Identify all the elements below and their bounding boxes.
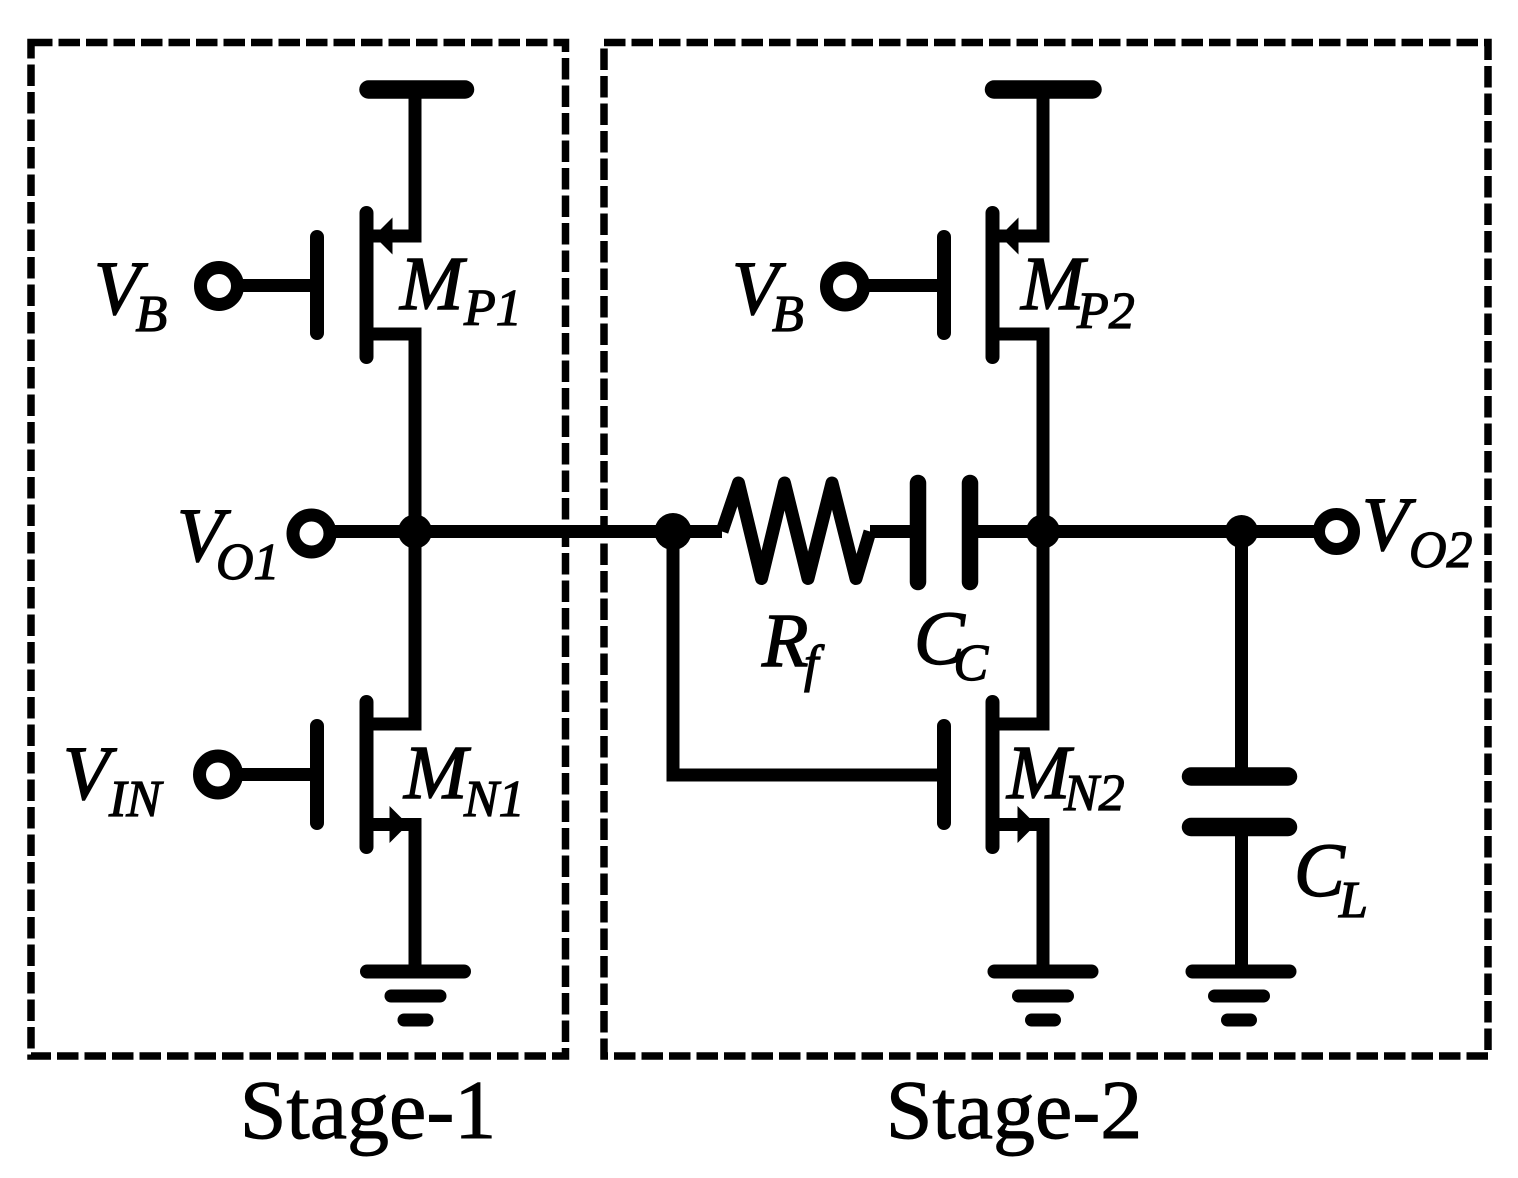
wire Rf to CC xyxy=(870,525,912,538)
svg-text:M: M xyxy=(403,731,471,815)
wire CC to node VO2int xyxy=(976,525,1043,538)
capacitor CL xyxy=(1191,777,1288,828)
svg-text:Stage-1: Stage-1 xyxy=(240,1064,497,1157)
transistor MP1 xyxy=(317,95,415,538)
label CC xyxy=(914,597,990,692)
wire VO1 to node A xyxy=(334,525,722,538)
Stage-1 dashed box xyxy=(31,43,566,1057)
wire VO2int to VO2 terminal xyxy=(1043,525,1315,538)
svg-text:L: L xyxy=(1338,872,1368,929)
terminal VB (stage 2) xyxy=(827,268,864,305)
ground (CL) xyxy=(1193,972,1290,1021)
node VO2 internal junction xyxy=(1026,515,1060,549)
label MP2 xyxy=(1020,242,1135,340)
svg-text:Stage-2: Stage-2 xyxy=(886,1064,1143,1157)
svg-text:P1: P1 xyxy=(463,280,522,337)
label MN1 xyxy=(403,731,525,828)
svg-text:C: C xyxy=(954,635,990,692)
svg-text:M: M xyxy=(399,242,467,326)
label MN2 xyxy=(1006,731,1125,822)
terminal VB (stage 1) xyxy=(201,268,238,305)
VDD rail bar (MP2 source) xyxy=(994,80,1093,99)
wire VB to MP1 gate xyxy=(240,279,313,292)
label Rf xyxy=(761,599,825,693)
node A junction (feedback tap) xyxy=(655,513,692,550)
wire VO2int down to CL xyxy=(1235,532,1248,768)
label VIN xyxy=(63,732,164,828)
svg-text:N1: N1 xyxy=(463,771,525,828)
terminal VO1 xyxy=(293,515,330,552)
Stage-2 dashed box xyxy=(604,43,1488,1057)
svg-text:B: B xyxy=(772,286,804,343)
transistor MP2 xyxy=(944,95,1043,538)
wire VIN to MN1 gate xyxy=(240,768,313,781)
wire node A to MN2 gate xyxy=(673,525,940,775)
capacitor CC xyxy=(918,483,970,582)
wire CL to ground xyxy=(1235,836,1248,972)
label VB (stage 1) xyxy=(94,247,167,343)
ground (stage 2) xyxy=(995,972,1092,1021)
svg-text:O2: O2 xyxy=(1409,522,1473,579)
node VO1 junction xyxy=(398,515,432,549)
VDD rail bar (MP1 source) xyxy=(369,80,466,99)
svg-text:IN: IN xyxy=(108,771,164,828)
terminal VO2 xyxy=(1319,514,1354,549)
svg-text:f: f xyxy=(804,636,825,693)
svg-text:R: R xyxy=(761,599,808,683)
label VO1 xyxy=(177,494,280,591)
svg-text:N2: N2 xyxy=(1063,765,1125,822)
resistor Rf xyxy=(722,483,870,579)
svg-text:B: B xyxy=(136,286,168,343)
ground (stage 1) xyxy=(367,972,464,1021)
label CL xyxy=(1294,829,1368,929)
svg-text:P2: P2 xyxy=(1076,283,1135,340)
label VB (stage 2) xyxy=(732,247,804,343)
node CL junction xyxy=(1225,515,1258,548)
label MP1 xyxy=(399,242,522,337)
transistor MN2 xyxy=(944,525,1043,972)
terminal VIN xyxy=(200,756,237,793)
transistor MN1 xyxy=(317,525,415,972)
wire VB to MP2 gate xyxy=(866,279,940,292)
svg-text:V: V xyxy=(1362,483,1416,567)
label VO2 xyxy=(1362,483,1473,579)
svg-text:O1: O1 xyxy=(216,534,280,591)
